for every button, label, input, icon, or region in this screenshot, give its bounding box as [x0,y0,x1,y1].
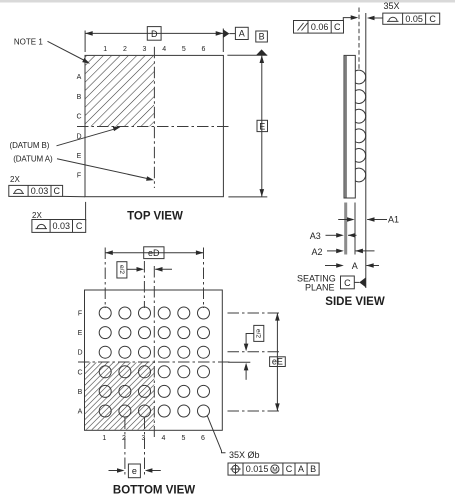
datum A leader [57,159,151,179]
column 3 extension [143,261,145,308]
profile FCF leader [372,17,383,19]
svg-text:4: 4 [162,435,166,442]
parallelism FCF 0.06 C [294,21,344,34]
column numbers bottom view [102,435,205,442]
svg-text:0.06: 0.06 [311,22,329,32]
svg-text:2X: 2X [32,211,42,220]
e/2 right dimension [246,334,254,347]
eE extension lines [228,312,281,314]
svg-text:2X: 2X [10,175,20,184]
svg-text:1: 1 [102,435,106,442]
A1 dimension [338,219,350,221]
solder balls side view [355,70,365,182]
centerline right extension [228,361,250,363]
svg-text:A1: A1 [388,214,399,224]
package body side view [344,55,355,198]
svg-text:C: C [334,22,341,32]
profile FCF 0.05 C (balls) [383,13,440,24]
svg-text:0.03: 0.03 [31,186,49,196]
svg-text:TOP VIEW: TOP VIEW [127,211,183,223]
svg-text:B: B [259,32,265,42]
dimension E label box [257,120,268,131]
svg-text:A: A [239,29,245,39]
svg-text:B: B [77,94,82,101]
eE label box [270,357,286,367]
top edge right extension (datum B) [227,54,267,56]
svg-text:A: A [352,261,358,271]
dimension E line [261,55,263,196]
leader from upper FCF to package corner [63,195,85,197]
svg-text:D: D [77,350,82,357]
dimension D extension lines [84,31,86,53]
svg-text:e/2: e/2 [255,329,262,338]
parallelism leader [343,18,353,21]
vertical centerline (datum A) [153,47,155,188]
35X Øb leader [207,416,225,453]
svg-text:0.03: 0.03 [53,221,71,231]
svg-text:F: F [77,173,81,180]
svg-text:SIDE VIEW: SIDE VIEW [325,296,385,308]
eD label box [144,247,164,259]
svg-text:5: 5 [182,46,186,53]
e/2 top dimension [127,268,140,270]
svg-text:eD: eD [148,248,160,258]
datum B leader [57,128,118,146]
datum C box [341,276,355,289]
svg-text:A3: A3 [310,231,321,241]
NOTE 1 leader [48,41,87,61]
horizontal centerline bottom [78,361,232,363]
svg-text:2: 2 [123,46,127,53]
datum B symbol [256,49,267,55]
svg-text:1: 1 [103,46,107,53]
svg-text:F: F [78,311,82,318]
dimension D label box [147,27,161,41]
svg-text:4: 4 [162,46,166,53]
svg-text:C: C [429,14,436,24]
svg-text:(DATUM A): (DATUM A) [13,154,53,163]
svg-text:5: 5 [182,435,186,442]
svg-text:C: C [54,186,61,196]
e/2 right label box [254,325,264,341]
svg-text:0.015: 0.015 [246,464,269,474]
vertical centerline bottom [153,266,155,437]
bottom edge right extension [228,196,267,198]
svg-text:NOTE 1: NOTE 1 [14,37,43,46]
column numbers top view [103,46,205,53]
datum A symbol [223,30,229,38]
svg-text:PLANE: PLANE [305,282,335,292]
svg-text:6: 6 [201,435,205,442]
svg-text:E: E [78,330,83,337]
svg-text:B: B [78,389,83,396]
svg-text:C: C [77,369,82,376]
hatched quadrant (note 1 area) [86,56,155,126]
svg-text:A2: A2 [312,247,323,257]
svg-text:D: D [151,29,158,39]
feature control frame profile 0.03 C (lower) [32,220,86,233]
e dimension arrows [109,470,121,472]
svg-text:C: C [76,114,81,121]
datum C triangle [359,277,366,287]
eD extension lines [104,248,106,309]
row letters bottom view [77,311,82,416]
body left face emphasis [345,56,347,198]
e extension lines below [124,418,126,478]
svg-text:e/2: e/2 [118,265,125,274]
svg-text:35X Øb: 35X Øb [229,450,260,460]
dimension D line [85,32,223,34]
svg-text:6: 6 [202,46,206,53]
svg-text:3: 3 [143,46,147,53]
horizontal centerline (datum B) [77,126,229,128]
svg-text:0.05: 0.05 [405,14,423,24]
left edge lower extension [85,202,87,221]
svg-text:M: M [272,467,277,474]
position FCF 0.015 M C A B [228,463,319,475]
hatched quadrant bottom view [85,362,154,429]
svg-text:eE: eE [272,357,283,367]
svg-text:C: C [76,221,83,231]
row D extension [228,351,281,353]
svg-text:e: e [132,466,137,476]
package outline bottom view [85,290,223,430]
ball centerline dashed [358,8,360,71]
ball grid [99,307,209,417]
svg-text:35X: 35X [384,1,400,11]
feature control frame profile 0.03 C (upper) [9,185,63,196]
svg-text:E: E [259,121,265,131]
svg-text:A: A [78,409,83,416]
e/2 top label box [117,262,127,278]
svg-text:(DATUM B): (DATUM B) [10,141,50,150]
svg-text:BOTTOM VIEW: BOTTOM VIEW [113,485,195,497]
e label box [128,464,140,478]
svg-text:C: C [286,464,293,474]
eE dimension line [276,313,278,411]
package outline top view [85,55,223,196]
svg-text:A: A [298,464,304,474]
row letters top view [76,74,81,180]
extension lines below body [344,203,347,255]
seating plane line [365,13,367,288]
A dimension [325,265,339,267]
svg-text:E: E [77,153,82,160]
eD dimension line [105,252,203,254]
svg-text:C: C [344,278,351,288]
svg-text:B: B [310,464,316,474]
svg-text:A: A [77,74,82,81]
